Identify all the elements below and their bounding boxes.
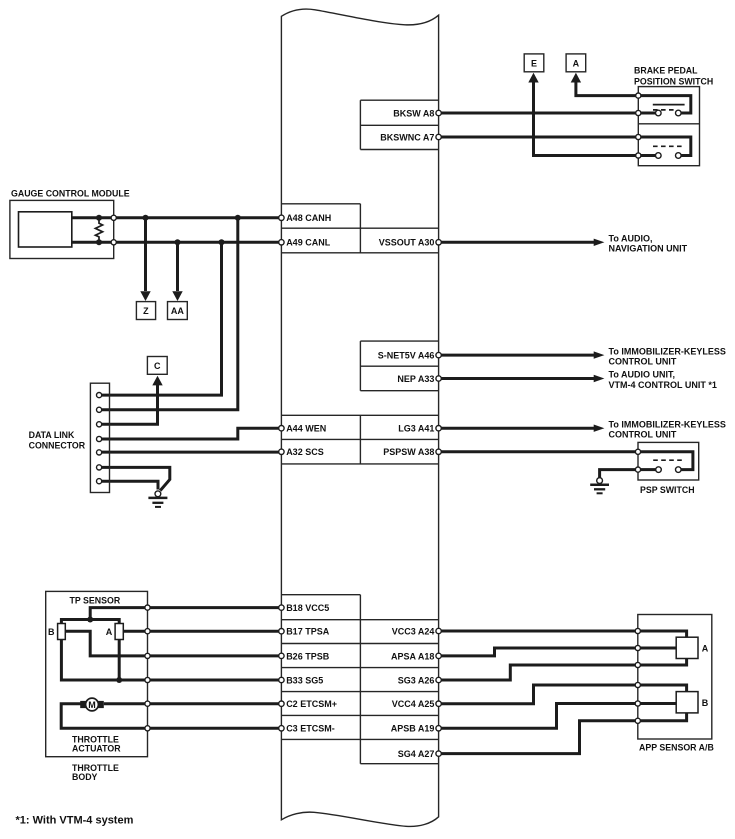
annotation To IMMOBILIZER-KEYLESS CONTROL UNIT (2) xyxy=(609,419,726,439)
svg-text:B: B xyxy=(702,698,709,708)
TP SENSOR label xyxy=(70,596,121,606)
DATA LINK CONNECTOR label xyxy=(29,430,86,451)
wire B17 TPSA from pot A wiper xyxy=(123,630,281,633)
wire CANL to DLC pin1 xyxy=(102,242,222,395)
connector Z xyxy=(136,302,155,320)
cell grid lines group 1 A48/A49/VSSOUT xyxy=(281,204,438,253)
svg-text:A32 SCS: A32 SCS xyxy=(286,447,324,457)
APP sensor element A xyxy=(676,637,709,658)
svg-text:APP SENSOR A/B: APP SENSOR A/B xyxy=(639,743,714,753)
cell grid lines B18..C3 / VCC3..SG4 xyxy=(281,595,438,764)
band pins left edge xyxy=(279,215,284,731)
connector E xyxy=(524,54,544,72)
APP SENSOR A/B box xyxy=(638,615,712,740)
APP sensor internal wire pin6 to B bottom xyxy=(640,713,686,721)
svg-text:CONTROL UNIT: CONTROL UNIT xyxy=(609,357,677,367)
potentiometer A (TP sensor) xyxy=(106,624,123,640)
brake switch S2 contacts xyxy=(656,153,682,159)
wire SG3 A26 to APP sensor xyxy=(439,665,638,680)
svg-text:A: A xyxy=(573,58,580,68)
cell grid lines BKSW/BKSWNC xyxy=(360,100,438,149)
resistor (CAN termination, in gauge module) xyxy=(95,218,102,243)
cell grid lines S-NET5V/NEP xyxy=(360,341,438,391)
APP sensor element B xyxy=(676,692,709,713)
svg-text:CONTROL UNIT: CONTROL UNIT xyxy=(609,430,677,440)
svg-text:C2 ETCSM+: C2 ETCSM+ xyxy=(286,699,337,709)
wire VCC3 A24 to APP sensor xyxy=(439,630,638,633)
svg-text:AA: AA xyxy=(171,306,184,316)
svg-text:BODY: BODY xyxy=(72,772,98,782)
wire CANH drop to connector Z xyxy=(140,218,150,301)
svg-text:PSP SWITCH: PSP SWITCH xyxy=(640,485,695,495)
wire DLC pin4 to A44 WEN xyxy=(102,428,281,439)
svg-text:To AUDIO,: To AUDIO, xyxy=(609,234,653,244)
PSP switch internal wiring xyxy=(641,452,693,470)
wire pot B wiper to B26 TPSB xyxy=(65,631,281,656)
wire S-NET5V A46 to immobilizer xyxy=(439,351,605,358)
brake switch S2 lower (open) wiring xyxy=(641,137,691,156)
svg-text:A49 CANL: A49 CANL xyxy=(286,238,331,248)
svg-text:VCC3 A24: VCC3 A24 xyxy=(392,626,435,636)
svg-text:VCC4 A25: VCC4 A25 xyxy=(392,699,435,709)
svg-text:To IMMOBILIZER-KEYLESS: To IMMOBILIZER-KEYLESS xyxy=(609,419,726,429)
svg-text:CONNECTOR: CONNECTOR xyxy=(29,440,86,450)
wire SG4 A27 to APP sensor xyxy=(439,721,638,754)
THROTTLE BODY box xyxy=(46,591,148,756)
wire PSPSW A38 to PSP switch xyxy=(439,450,638,453)
THROTTLE ACTUATOR label xyxy=(72,735,121,754)
junction dot VCC5 rail xyxy=(87,617,93,623)
wire CANL drop to connector AA xyxy=(172,242,182,301)
junction dot CANH to Z xyxy=(143,215,149,221)
svg-text:B17 TPSA: B17 TPSA xyxy=(286,627,330,637)
svg-text:S-NET5V A46: S-NET5V A46 xyxy=(378,351,435,361)
svg-text:*1: With VTM-4 system: *1: With VTM-4 system xyxy=(16,815,134,827)
ground G101 (data link connector) xyxy=(148,491,167,507)
svg-text:ACTUATOR: ACTUATOR xyxy=(72,744,121,754)
GAUGE CONTROL MODULE label xyxy=(11,189,130,199)
annotation To AUDIO, NAVIGATION UNIT xyxy=(609,234,688,254)
brake switch S1 dashes xyxy=(653,109,676,111)
svg-text:DATA LINK: DATA LINK xyxy=(29,430,75,440)
wire B33 SG5 rail xyxy=(61,640,281,681)
PSP switch dashes xyxy=(653,459,685,461)
svg-text:LG3 A41: LG3 A41 xyxy=(398,424,434,434)
wire DLC pin7 to ground xyxy=(102,481,158,489)
PSP SWITCH label xyxy=(640,485,695,495)
wire DLC pin5 to A32 SCS xyxy=(102,451,281,454)
junction dot CANL to AA xyxy=(175,239,181,245)
svg-text:SG4 A27: SG4 A27 xyxy=(398,749,435,759)
svg-text:VSSOUT A30: VSSOUT A30 xyxy=(379,238,435,248)
svg-text:Z: Z xyxy=(143,306,149,316)
svg-text:BRAKE PEDAL: BRAKE PEDAL xyxy=(634,66,698,76)
wire VSSOUT A30 to audio/navigation xyxy=(439,239,605,246)
wire pot A bottom to SG5 rail xyxy=(118,640,121,681)
svg-text:B26 TPSB: B26 TPSB xyxy=(286,651,330,661)
junction dot CANL at resistor xyxy=(96,239,102,245)
pin labels left column xyxy=(286,213,337,734)
wire motor loop to C3 ETCSM- xyxy=(61,704,281,729)
svg-text:E: E xyxy=(531,58,537,68)
gauge module pin CANL xyxy=(111,240,116,245)
svg-text:APSA A18: APSA A18 xyxy=(391,651,434,661)
wire brake switch to connector A xyxy=(571,73,639,96)
APP sensor internal wire pin4 to B top xyxy=(640,685,686,692)
APP sensor internal wire pin1 to A top xyxy=(640,631,686,637)
svg-text:BKSWNC A7: BKSWNC A7 xyxy=(380,132,434,142)
gauge control module inner unit box xyxy=(19,212,72,247)
junction dot CANH at resistor xyxy=(96,215,102,221)
wire B18 VCC5 xyxy=(90,608,281,620)
wire LG3 A41 to immobilizer xyxy=(439,425,605,432)
svg-text:A44 WEN: A44 WEN xyxy=(286,424,326,434)
BRAKE PEDAL POSITION SWITCH label xyxy=(634,66,713,87)
gauge module pin CANH xyxy=(111,215,116,220)
throttle body pins xyxy=(145,605,150,731)
APP sensor pins xyxy=(635,628,640,723)
svg-text:SG3 A26: SG3 A26 xyxy=(398,675,435,685)
APP SENSOR A/B label xyxy=(639,743,714,753)
brake switch S1 upper (closed) wiring xyxy=(641,96,691,113)
gauge control module outer box xyxy=(10,200,114,258)
potentiometer B (TP sensor) xyxy=(48,624,65,640)
svg-text:C3 ETCSM-: C3 ETCSM- xyxy=(286,724,335,734)
band pins right edge xyxy=(436,110,441,756)
junction dot CANH to DLC xyxy=(235,215,241,221)
PSP switch contacts xyxy=(656,467,681,473)
brake switch S2 dashes xyxy=(653,145,685,147)
APP sensor internal wire pin2 to A left xyxy=(640,647,676,650)
svg-text:PSPSW A38: PSPSW A38 xyxy=(383,447,434,457)
wire DLC pin3 to connector C xyxy=(102,376,163,425)
junction dot SG5 rail xyxy=(116,677,122,683)
svg-text:POSITION SWITCH: POSITION SWITCH xyxy=(634,77,713,87)
svg-text:APSB A19: APSB A19 xyxy=(391,724,435,734)
connector AA xyxy=(168,302,188,320)
annotation To AUDIO UNIT, VTM-4 CONTROL UNIT *1 xyxy=(609,370,717,390)
svg-text:To AUDIO UNIT,: To AUDIO UNIT, xyxy=(609,370,676,380)
brake switch S1 arm (solid) xyxy=(653,104,685,106)
wire A49 CANL net xyxy=(72,241,282,244)
motor M (throttle actuator) xyxy=(80,698,104,711)
brake switch S1 contacts xyxy=(656,110,682,116)
wire CANH to DLC pin2 xyxy=(102,218,238,410)
connector A (top) xyxy=(566,54,586,72)
ground G (PSP switch) xyxy=(590,478,609,494)
svg-text:BKSW A8: BKSW A8 xyxy=(393,108,434,118)
PSP switch box xyxy=(638,442,699,480)
cell grid lines A44/A32/LG3/PSPSW xyxy=(281,415,438,464)
svg-text:VTM-4 CONTROL UNIT *1: VTM-4 CONTROL UNIT *1 xyxy=(609,380,717,390)
APP sensor internal wire pin5 to B left xyxy=(640,702,676,705)
wire APSA A18 to APP sensor xyxy=(439,648,638,656)
svg-text:NAVIGATION UNIT: NAVIGATION UNIT xyxy=(609,244,688,254)
wire PSP switch to ground xyxy=(600,470,636,478)
APP sensor internal wire pin3 to A bottom xyxy=(640,659,686,666)
THROTTLE BODY label xyxy=(72,763,119,782)
svg-text:NEP A33: NEP A33 xyxy=(397,374,434,384)
wire BKSW A8 to brake switch xyxy=(439,112,639,115)
wire VCC4 A25 to APP sensor xyxy=(439,685,638,704)
svg-text:To IMMOBILIZER-KEYLESS: To IMMOBILIZER-KEYLESS xyxy=(609,346,726,356)
junction dot CANL to DLC xyxy=(219,239,225,245)
svg-text:A: A xyxy=(106,627,113,637)
wire VCC5 rail to pots xyxy=(61,620,119,624)
wire brake switch to connector E xyxy=(528,73,638,156)
brake pedal position switch box xyxy=(638,87,699,166)
svg-text:A: A xyxy=(702,643,709,653)
svg-text:A48 CANH: A48 CANH xyxy=(286,213,331,223)
annotation To IMMOBILIZER-KEYLESS CONTROL UNIT (1) xyxy=(609,346,726,366)
wire APSB A19 to APP sensor xyxy=(439,704,638,729)
wire BKSWNC A7 to brake switch xyxy=(439,136,639,139)
svg-text:M: M xyxy=(88,700,96,710)
svg-text:C: C xyxy=(154,361,161,371)
DLC pins 1-7 xyxy=(97,393,102,484)
wire A48 CANH net xyxy=(72,216,282,219)
ECM/PCM torn band outline xyxy=(281,9,438,826)
wire C2 ETCSM+ to motor xyxy=(104,702,282,705)
svg-text:B18 VCC5: B18 VCC5 xyxy=(286,603,329,613)
wire DLC pin6 to ground xyxy=(102,467,170,490)
svg-text:TP SENSOR: TP SENSOR xyxy=(70,596,121,606)
svg-text:B: B xyxy=(48,627,55,637)
svg-text:B33 SG5: B33 SG5 xyxy=(286,675,323,685)
DATA LINK CONNECTOR box xyxy=(90,383,109,492)
PSP switch pins xyxy=(635,449,640,472)
pin labels right column xyxy=(378,108,435,759)
wire NEP A33 to audio unit xyxy=(439,375,605,382)
svg-text:GAUGE CONTROL MODULE: GAUGE CONTROL MODULE xyxy=(11,189,130,199)
connector C xyxy=(147,357,167,375)
footnote *1 xyxy=(16,815,134,827)
brake switch pins xyxy=(636,93,641,158)
